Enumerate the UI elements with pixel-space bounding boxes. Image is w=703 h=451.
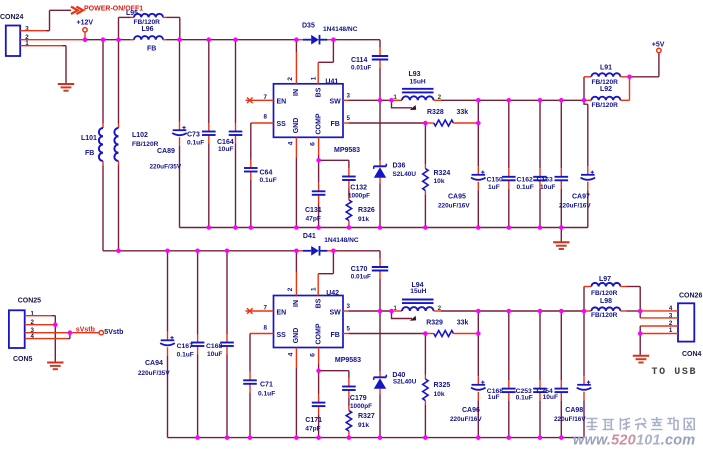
svg-text:10k: 10k bbox=[434, 391, 445, 398]
svg-text:10uF: 10uF bbox=[207, 351, 222, 358]
svg-text:15uH: 15uH bbox=[410, 288, 426, 295]
svg-text:C64: C64 bbox=[260, 169, 273, 176]
svg-text:CA98: CA98 bbox=[565, 407, 583, 414]
svg-text:47pF: 47pF bbox=[305, 426, 320, 433]
svg-text:SS: SS bbox=[277, 121, 287, 128]
svg-text:D41: D41 bbox=[303, 233, 316, 240]
svg-text:10uF: 10uF bbox=[218, 146, 233, 153]
svg-text:R325: R325 bbox=[434, 382, 451, 389]
svg-text:CON24: CON24 bbox=[0, 14, 23, 21]
svg-text:GND: GND bbox=[293, 328, 300, 344]
svg-text:R327: R327 bbox=[358, 413, 375, 420]
svg-text:0.1uF: 0.1uF bbox=[258, 390, 275, 397]
svg-text:0.1uF: 0.1uF bbox=[517, 184, 534, 191]
svg-text:L98: L98 bbox=[600, 298, 612, 305]
svg-text:4: 4 bbox=[287, 352, 294, 356]
svg-text:EN: EN bbox=[277, 310, 287, 317]
svg-text:33k: 33k bbox=[457, 109, 469, 116]
svg-text:C170: C170 bbox=[351, 266, 368, 273]
svg-text:IN: IN bbox=[293, 89, 300, 96]
svg-text:0.1uF: 0.1uF bbox=[516, 394, 533, 401]
svg-text:CA89: CA89 bbox=[157, 148, 175, 155]
svg-text:220uF/16V: 220uF/16V bbox=[438, 203, 470, 210]
svg-text:CA95: CA95 bbox=[448, 194, 466, 201]
svg-text:C162: C162 bbox=[517, 177, 533, 184]
svg-text:EN: EN bbox=[277, 99, 287, 106]
svg-text:+5V: +5V bbox=[652, 41, 665, 48]
svg-text:FB: FB bbox=[331, 121, 340, 128]
svg-text:8: 8 bbox=[264, 114, 268, 121]
svg-text:47pF: 47pF bbox=[306, 216, 321, 223]
svg-text:10k: 10k bbox=[434, 178, 445, 185]
svg-text:S2L40U: S2L40U bbox=[393, 378, 417, 385]
svg-text:0.1uF: 0.1uF bbox=[260, 177, 277, 184]
svg-text:33k: 33k bbox=[457, 319, 469, 326]
svg-text:1: 1 bbox=[31, 311, 35, 318]
svg-text:BS: BS bbox=[315, 87, 322, 97]
svg-text:+12V: +12V bbox=[77, 19, 94, 26]
svg-text:220uF/16V: 220uF/16V bbox=[554, 416, 586, 423]
svg-text:L101: L101 bbox=[81, 135, 97, 142]
svg-text:0.01uF: 0.01uF bbox=[351, 274, 371, 281]
svg-text:SW: SW bbox=[330, 99, 342, 106]
svg-text:R326: R326 bbox=[358, 207, 375, 214]
svg-text:1: 1 bbox=[311, 76, 318, 80]
svg-text:C168: C168 bbox=[206, 343, 222, 350]
svg-text:C150: C150 bbox=[487, 177, 503, 184]
svg-text:0.1uF: 0.1uF bbox=[177, 351, 194, 358]
svg-text:U42: U42 bbox=[326, 290, 339, 297]
svg-text:FB/120R: FB/120R bbox=[592, 102, 619, 109]
svg-text:220uF/16V: 220uF/16V bbox=[450, 416, 482, 423]
svg-text:C167: C167 bbox=[177, 343, 193, 350]
svg-text:L91: L91 bbox=[600, 64, 612, 71]
svg-text:L102: L102 bbox=[132, 132, 148, 139]
svg-text:L93: L93 bbox=[409, 71, 421, 78]
svg-text:220uF/16V: 220uF/16V bbox=[559, 203, 591, 210]
svg-text:FB: FB bbox=[331, 332, 340, 339]
svg-text:www.520101.com: www.520101.com bbox=[573, 433, 695, 447]
svg-text:6: 6 bbox=[309, 142, 316, 146]
svg-text:1000pF: 1000pF bbox=[348, 193, 370, 200]
svg-text:3: 3 bbox=[347, 93, 351, 100]
svg-text:FB/120R: FB/120R bbox=[592, 79, 619, 86]
svg-text:S2L40U: S2L40U bbox=[393, 171, 417, 178]
svg-text:1N4148/NC: 1N4148/NC bbox=[323, 26, 358, 33]
svg-text:FB/120R: FB/120R bbox=[591, 290, 618, 297]
svg-text:C171: C171 bbox=[305, 417, 322, 424]
svg-text:3: 3 bbox=[347, 303, 351, 310]
svg-text:5: 5 bbox=[347, 115, 351, 122]
svg-text:FB: FB bbox=[85, 150, 94, 157]
svg-text:1uF: 1uF bbox=[488, 394, 500, 401]
svg-text:FB/120R: FB/120R bbox=[134, 19, 161, 26]
svg-text:R329: R329 bbox=[426, 319, 443, 326]
svg-text:IN: IN bbox=[293, 300, 300, 307]
svg-text:10uF: 10uF bbox=[543, 394, 558, 401]
svg-text:15uH: 15uH bbox=[410, 79, 426, 86]
svg-text:91k: 91k bbox=[358, 216, 369, 223]
svg-text:2: 2 bbox=[287, 77, 294, 81]
svg-text:220uF/35V: 220uF/35V bbox=[138, 370, 170, 377]
svg-text:GND: GND bbox=[293, 118, 300, 134]
svg-text:CON4: CON4 bbox=[682, 351, 702, 358]
svg-text:CON25: CON25 bbox=[18, 297, 41, 304]
svg-text:FB: FB bbox=[147, 45, 156, 52]
svg-text:5: 5 bbox=[347, 326, 351, 333]
svg-text:6: 6 bbox=[309, 353, 316, 357]
svg-text:C179: C179 bbox=[350, 395, 367, 402]
svg-text:D36: D36 bbox=[393, 162, 406, 169]
svg-text:MP9583: MP9583 bbox=[335, 357, 361, 364]
svg-text:1N4148/NC: 1N4148/NC bbox=[324, 237, 359, 244]
svg-text:220uF/35V: 220uF/35V bbox=[150, 163, 182, 170]
svg-text:0.01uF: 0.01uF bbox=[351, 65, 371, 72]
svg-text:C114: C114 bbox=[351, 57, 367, 64]
svg-text:1: 1 bbox=[311, 287, 318, 291]
svg-text:COMP: COMP bbox=[316, 113, 323, 134]
svg-text:2: 2 bbox=[287, 287, 294, 291]
svg-text:C164: C164 bbox=[217, 139, 234, 146]
svg-text:D35: D35 bbox=[302, 23, 315, 30]
svg-text:C131: C131 bbox=[305, 207, 322, 214]
svg-text:R324: R324 bbox=[434, 170, 451, 177]
svg-text:1000pF: 1000pF bbox=[350, 403, 372, 410]
svg-text:4: 4 bbox=[287, 141, 294, 145]
svg-text:C132: C132 bbox=[350, 184, 367, 191]
svg-text:R328: R328 bbox=[427, 109, 444, 116]
svg-text:C163: C163 bbox=[537, 177, 553, 184]
svg-text:SW: SW bbox=[330, 310, 342, 317]
svg-text:L97: L97 bbox=[599, 276, 611, 283]
svg-text:sVstb: sVstb bbox=[76, 327, 95, 334]
svg-text:8: 8 bbox=[264, 324, 268, 331]
svg-text:C71: C71 bbox=[260, 381, 273, 388]
svg-text:MP9583: MP9583 bbox=[334, 147, 360, 154]
svg-text:L96: L96 bbox=[142, 26, 154, 33]
svg-text:TO USB: TO USB bbox=[652, 367, 698, 378]
svg-text:U41: U41 bbox=[325, 79, 338, 86]
svg-text:L95: L95 bbox=[126, 10, 138, 17]
svg-text:CA96: CA96 bbox=[462, 407, 480, 414]
svg-text:CON26: CON26 bbox=[679, 292, 702, 299]
svg-text:L92: L92 bbox=[600, 86, 612, 93]
svg-text:CON5: CON5 bbox=[13, 356, 33, 363]
svg-text:91k: 91k bbox=[358, 422, 369, 429]
svg-text:SS: SS bbox=[277, 332, 287, 339]
svg-text:10uF: 10uF bbox=[540, 184, 555, 191]
svg-text:CA94: CA94 bbox=[145, 360, 163, 367]
svg-text:C73: C73 bbox=[187, 132, 200, 139]
svg-text:CA97: CA97 bbox=[572, 194, 590, 201]
svg-text:FB/120R: FB/120R bbox=[132, 141, 159, 148]
svg-text:BS: BS bbox=[315, 298, 322, 308]
svg-text:COMP: COMP bbox=[316, 323, 323, 344]
svg-text:FB/120R: FB/120R bbox=[591, 312, 618, 319]
svg-text:0.1uF: 0.1uF bbox=[187, 139, 204, 146]
svg-text:5Vstb: 5Vstb bbox=[104, 329, 123, 336]
svg-text:1uF: 1uF bbox=[488, 184, 500, 191]
